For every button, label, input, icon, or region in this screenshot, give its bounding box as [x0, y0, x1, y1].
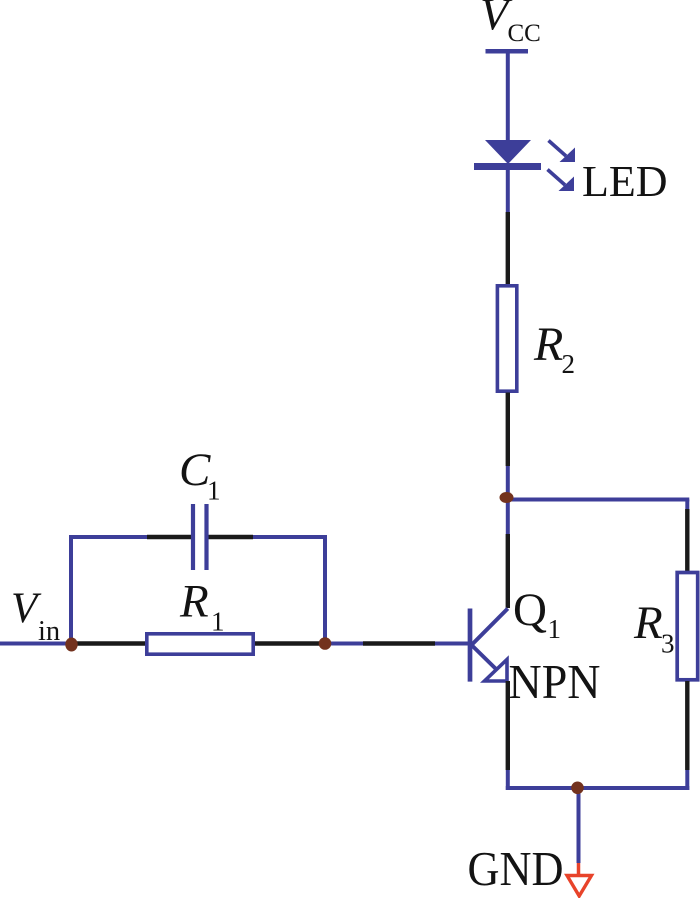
svg-text:GND: GND [468, 841, 564, 896]
svg-text:NPN: NPN [509, 654, 601, 709]
svg-text:R: R [179, 576, 209, 628]
svg-text:LED: LED [582, 157, 668, 206]
svg-text:1: 1 [207, 476, 221, 506]
svg-text:2: 2 [562, 349, 576, 379]
svg-text:1: 1 [211, 607, 225, 637]
svg-text:R: R [633, 597, 663, 649]
svg-text:in: in [38, 616, 60, 647]
svg-text:R: R [533, 318, 563, 371]
svg-text:3: 3 [661, 628, 675, 658]
svg-text:CC: CC [508, 20, 541, 47]
svg-text:Q: Q [513, 584, 547, 636]
svg-text:1: 1 [548, 614, 562, 644]
